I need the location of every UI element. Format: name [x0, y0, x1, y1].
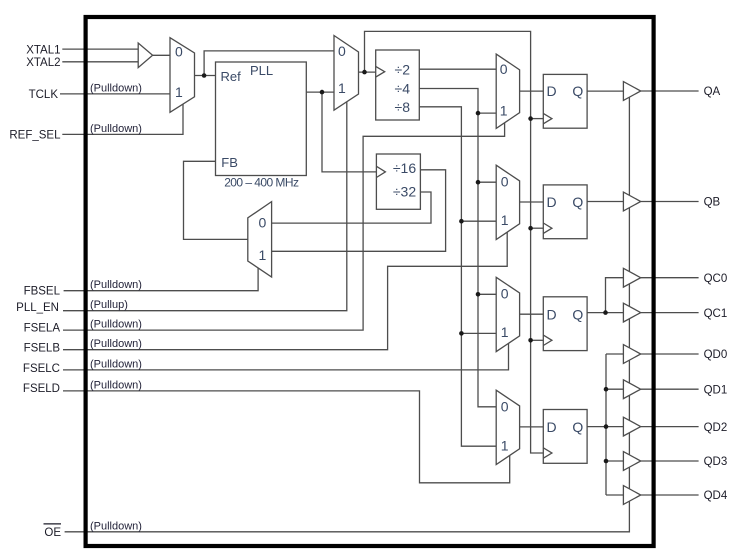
svg-text:QD1: QD1	[704, 384, 728, 396]
svg-text:XTAL1: XTAL1	[26, 44, 60, 56]
svg-text:1: 1	[501, 438, 509, 454]
svg-text:FSELA: FSELA	[24, 322, 61, 334]
svg-text:(Pulldown): (Pulldown)	[90, 82, 142, 94]
svg-text:OE: OE	[44, 527, 61, 539]
svg-text:FSELB: FSELB	[24, 343, 61, 355]
svg-text:FSELC: FSELC	[23, 363, 60, 375]
svg-text:D: D	[546, 83, 556, 99]
svg-text:Q: Q	[572, 306, 583, 322]
svg-text:1: 1	[501, 324, 509, 340]
svg-text:Ref: Ref	[221, 69, 242, 84]
svg-text:0: 0	[338, 43, 346, 59]
svg-text:XTAL2: XTAL2	[26, 57, 60, 69]
svg-text:0: 0	[501, 173, 509, 189]
svg-text:(Pulldown): (Pulldown)	[90, 123, 142, 135]
svg-text:÷2: ÷2	[395, 61, 411, 77]
svg-text:(Pulldown): (Pulldown)	[90, 358, 142, 370]
svg-text:0: 0	[501, 286, 509, 302]
svg-text:D: D	[546, 419, 556, 435]
svg-text:PLL: PLL	[250, 63, 273, 78]
svg-text:1: 1	[501, 212, 509, 228]
svg-text:QD2: QD2	[704, 422, 728, 434]
svg-text:0: 0	[500, 61, 508, 77]
svg-text:(Pulldown): (Pulldown)	[90, 279, 142, 291]
svg-text:Q: Q	[572, 194, 583, 210]
svg-text:1: 1	[338, 80, 346, 96]
svg-text:(Pullup): (Pullup)	[90, 299, 128, 311]
svg-text:TCLK: TCLK	[29, 89, 59, 101]
svg-text:1: 1	[500, 102, 508, 118]
svg-text:Q: Q	[572, 419, 583, 435]
svg-text:1: 1	[259, 247, 267, 263]
svg-text:QD3: QD3	[704, 456, 728, 468]
svg-text:Q: Q	[572, 83, 583, 99]
svg-text:(Pulldown): (Pulldown)	[90, 379, 142, 391]
svg-text:(Pulldown): (Pulldown)	[90, 338, 142, 350]
svg-text:FBSEL: FBSEL	[24, 286, 61, 298]
svg-text:QB: QB	[704, 197, 721, 209]
svg-text:FSELD: FSELD	[23, 383, 60, 395]
svg-text:÷8: ÷8	[395, 99, 411, 115]
svg-text:0: 0	[259, 215, 267, 231]
svg-text:QC1: QC1	[704, 308, 728, 320]
svg-text:PLL_EN: PLL_EN	[16, 302, 59, 314]
svg-text:200 – 400 MHz: 200 – 400 MHz	[224, 175, 299, 189]
svg-text:D: D	[546, 306, 556, 322]
svg-text:0: 0	[175, 44, 183, 60]
svg-text:REF_SEL: REF_SEL	[9, 130, 61, 142]
svg-text:QD0: QD0	[704, 349, 728, 361]
svg-text:QD4: QD4	[704, 490, 728, 502]
svg-text:÷32: ÷32	[393, 184, 416, 200]
svg-text:1: 1	[175, 84, 183, 100]
svg-text:(Pulldown): (Pulldown)	[90, 520, 142, 532]
svg-text:QC0: QC0	[704, 273, 728, 285]
svg-text:÷16: ÷16	[393, 160, 416, 176]
svg-text:QA: QA	[704, 86, 721, 98]
svg-text:D: D	[546, 194, 556, 210]
svg-text:÷4: ÷4	[395, 81, 411, 97]
svg-text:FB: FB	[221, 155, 238, 170]
svg-text:(Pulldown): (Pulldown)	[90, 319, 142, 331]
svg-text:0: 0	[501, 399, 509, 415]
